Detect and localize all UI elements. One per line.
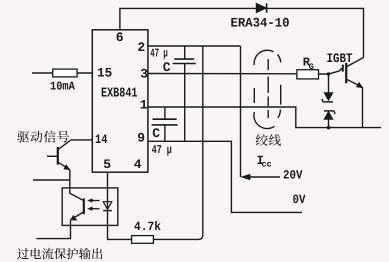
- transistor Q1 (drive signal buffer): [47, 140, 70, 170]
- svg-text:IGBT: IGBT: [327, 51, 353, 66]
- optocoupler light arrows: [88, 199, 100, 211]
- label overcurrent protection output: [17, 248, 102, 260]
- svg-text:cc: cc: [262, 160, 272, 170]
- svg-text:EXB841: EXB841: [101, 87, 138, 102]
- wire: pin 1 row to emitter return: [148, 107, 381, 128]
- resistor R2 4.7k body: [132, 236, 154, 244]
- wire: Q1 collector to pin 14: [70, 139, 92, 141]
- zener diode ZD2 (gate clamp, cathode up): [324, 111, 335, 128]
- svg-text:47 μ: 47 μ: [152, 143, 172, 157]
- node: gate-zener junction dot: [327, 72, 331, 76]
- wire: pin 2 row to +20V bus: [148, 45, 241, 47]
- optocoupler LED (anode to pin 5): [103, 202, 112, 211]
- label Icc: [257, 154, 272, 170]
- op IC U1 EXB841 body outline: [92, 30, 148, 172]
- wire: top bus from pin 6 up and across to IGBT collector: [120, 8, 364, 57]
- designator RG: [303, 56, 314, 72]
- svg-text:15: 15: [97, 66, 112, 81]
- wire: Rg to IGBT gate: [319, 68, 342, 74]
- svg-text:6: 6: [116, 30, 124, 45]
- svg-text:1: 1: [140, 98, 148, 113]
- wire: pin 9 row to 0V: [148, 141, 302, 212]
- optocoupler phototransistor: [70, 198, 83, 220]
- label jiaoxian (twisted pair): [256, 134, 281, 146]
- svg-text:2: 2: [137, 40, 145, 55]
- svg-text:10mA: 10mA: [50, 80, 75, 94]
- svg-text:4: 4: [134, 157, 142, 172]
- wire: pin 3 row (gate drive) to Rg: [148, 73, 297, 75]
- zener diode ZD1 (gate clamp, cathode down): [322, 74, 333, 102]
- svg-text:0V: 0V: [293, 193, 306, 207]
- wire: 20V supply lead with Icc arrow: [242, 174, 281, 180]
- resistor R-in (10mA limiting) body: [53, 69, 77, 77]
- capacitor C1 47u (pin2 to pin9 bypass): [173, 46, 196, 141]
- capacitor C2 47u (pin1 to pin9): [152, 107, 178, 141]
- svg-text:4.7k: 4.7k: [134, 220, 161, 234]
- diode ERA34-10 (fast recovery diode on top bus): [256, 3, 266, 13]
- svg-text:ERA34-10: ERA34-10: [231, 16, 290, 31]
- svg-text:9: 9: [137, 130, 145, 145]
- wire: pin 15 input wire: [32, 72, 92, 74]
- svg-text:5: 5: [103, 157, 111, 172]
- wire: protection output upper stub: [33, 179, 70, 181]
- svg-text:G: G: [309, 62, 314, 72]
- twisted pair cable symbol (dashed capsule): [254, 50, 281, 128]
- wire: pin 5 down through LED to 4.7k: [108, 172, 132, 239]
- node: zener-emitter return junction dot: [327, 126, 331, 130]
- wire: +20V feed bus down from pin 2 row: [240, 46, 242, 177]
- svg-text:3: 3: [140, 66, 148, 81]
- svg-text:C: C: [152, 126, 160, 141]
- svg-text:47 μ: 47 μ: [150, 46, 168, 60]
- label drive signal: [17, 131, 69, 143]
- svg-text:C: C: [163, 60, 171, 75]
- wire: Q1 emitter down to optocoupler: [70, 169, 84, 200]
- transistor Q-IGBT symbol: [343, 58, 364, 128]
- svg-text:14: 14: [95, 132, 108, 147]
- optocoupler U2 package outline: [62, 188, 118, 226]
- wire: bus from pin 2 row down to 4.7k resistor: [153, 46, 202, 239]
- wire: opto emitter to protection output lower stub: [36, 220, 70, 239]
- svg-text:20V: 20V: [283, 169, 303, 183]
- resistor RG body: [297, 70, 319, 79]
